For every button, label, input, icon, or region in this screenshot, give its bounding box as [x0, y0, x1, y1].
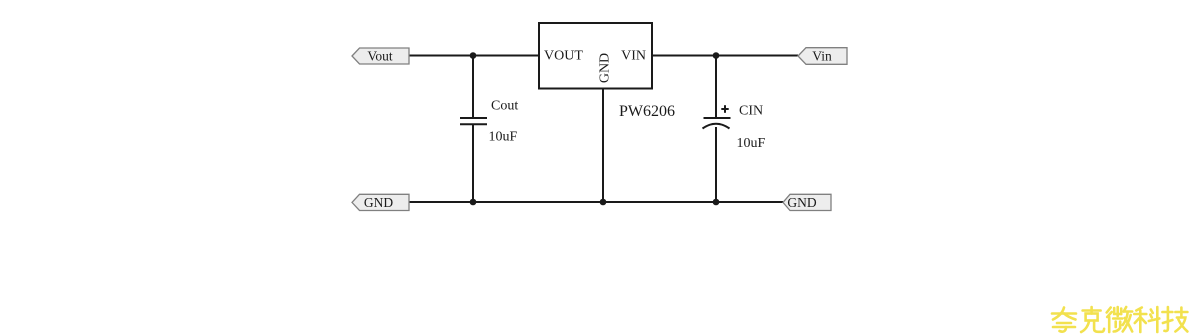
- pin label VOUT: [544, 49, 583, 64]
- svg-text:VOUT: VOUT: [544, 49, 583, 64]
- junction node at U1 GND bottom: [600, 199, 607, 206]
- wire CIN bottom lead: [715, 127, 717, 202]
- net flag Vout: [352, 48, 409, 64]
- svg-text:Cout: Cout: [491, 99, 518, 114]
- glyph KUA: [1052, 308, 1076, 332]
- net flag Vin: [798, 48, 847, 65]
- svg-text:Vout: Vout: [367, 49, 393, 64]
- value 10uF (CIN): [737, 136, 766, 151]
- label Cout: [491, 99, 518, 114]
- wire U1 VIN pin to Vin flag: [652, 55, 798, 57]
- net flag GND left: [352, 194, 409, 210]
- svg-text:GND: GND: [364, 195, 393, 210]
- regulator U1 body: [539, 23, 652, 89]
- svg-text:GND: GND: [787, 195, 816, 210]
- capacitor CIN positive plate: [704, 117, 731, 119]
- glyph WEI: [1107, 307, 1133, 332]
- glyph JI: [1162, 307, 1187, 332]
- value 10uF (Cout): [489, 130, 518, 145]
- watermark Chinese text (drawn glyphs): [1052, 307, 1187, 332]
- junction node at CIN bottom: [713, 199, 720, 206]
- svg-text:PW6206: PW6206: [619, 103, 675, 120]
- wire U1 GND pin to bottom rail: [602, 89, 604, 203]
- label CIN: [739, 104, 763, 119]
- svg-text:10uF: 10uF: [737, 136, 766, 151]
- svg-text:VIN: VIN: [621, 49, 646, 64]
- net flag GND right: [783, 194, 831, 210]
- CIN polarity plus sign: [721, 105, 728, 113]
- svg-text:CIN: CIN: [739, 104, 763, 119]
- svg-text:10uF: 10uF: [489, 130, 518, 145]
- capacitor Cout plates: [460, 118, 487, 124]
- pin label VIN: [621, 49, 646, 64]
- junction node at Cout top: [470, 52, 477, 59]
- glyph KE1: [1081, 307, 1104, 332]
- wire GND bottom rail: [409, 201, 783, 203]
- svg-text:Vin: Vin: [812, 49, 832, 64]
- junction node at Cout bottom: [470, 199, 477, 206]
- wire CIN top lead: [715, 56, 717, 118]
- part value PW6206: [619, 103, 675, 120]
- junction node at CIN top: [713, 52, 720, 59]
- wire Cout top lead: [472, 56, 474, 119]
- svg-text:GND: GND: [598, 53, 613, 83]
- wire Cout bottom lead: [472, 125, 474, 203]
- glyph KE2: [1134, 307, 1159, 332]
- capacitor CIN curved negative plate: [703, 124, 730, 129]
- wire Vout flag to U1 VOUT pin: [409, 55, 539, 57]
- pin label GND (rotated): [598, 53, 613, 83]
